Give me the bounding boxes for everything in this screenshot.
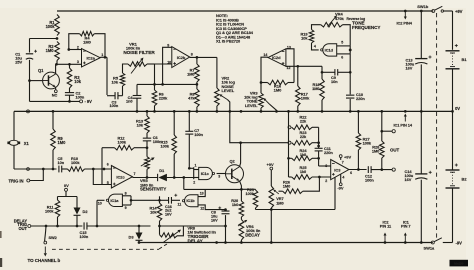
svg-text:14: 14 (263, 53, 267, 57)
svg-text:470k: 470k (335, 16, 345, 21)
svg-text:10n: 10n (58, 160, 65, 165)
potentiometer VR6 (238, 220, 261, 244)
svg-text:1M0: 1M0 (276, 201, 283, 206)
svg-text:4: 4 (342, 175, 344, 179)
svg-text:-9V: -9V (456, 241, 463, 246)
svg-text:IC1 PIN 14: IC1 PIN 14 (394, 123, 413, 128)
wire mixer column (317, 127, 330, 166)
svg-text:1M0: 1M0 (187, 72, 194, 77)
wire trigger-delay row (160, 225, 227, 236)
potentiometer VR4 (321, 15, 350, 46)
capacitor C14 (405, 111, 432, 243)
resistor R23 with terminal (288, 130, 319, 145)
svg-text:100n: 100n (110, 103, 119, 108)
op-amp IC3 (CA3080) (325, 160, 349, 183)
resistor R4 (80, 31, 95, 44)
credit box (450, 260, 469, 267)
wire IC2c out (133, 177, 158, 179)
terminal 0V mid (58, 183, 78, 200)
svg-text:16V: 16V (405, 177, 412, 182)
svg-text:100k: 100k (118, 140, 127, 145)
svg-text:100k: 100k (301, 96, 310, 101)
resistor R2 (46, 42, 60, 65)
svg-text:LEVEL: LEVEL (222, 88, 235, 93)
svg-text:100k: 100k (363, 141, 372, 146)
wire tone mute line (228, 110, 287, 144)
capacitor C4 (126, 84, 141, 112)
capacitor C9 (321, 69, 351, 84)
wire Q2 collector (240, 143, 241, 167)
battery B2 (446, 111, 468, 242)
wire IC1a inputs (122, 196, 160, 205)
wire 0V rail (14, 110, 453, 112)
svg-text:1n0: 1n0 (126, 99, 133, 104)
svg-text:220n: 220n (324, 150, 333, 155)
svg-text:1k0: 1k0 (300, 152, 306, 157)
wire Q1 emitter NC (52, 87, 58, 98)
transducer X1 (7, 140, 29, 146)
wire Q1 collector (55, 63, 58, 74)
note text block (216, 13, 254, 44)
resistor R11 (45, 200, 60, 227)
resistor R6 (152, 64, 172, 113)
svg-text:220n: 220n (356, 96, 365, 101)
potentiometer VR5 (141, 148, 155, 179)
svg-text:Me230: Me230 (454, 262, 464, 266)
wire IC2b output (190, 56, 217, 88)
wire osc column (349, 54, 352, 113)
wire D1 node (167, 176, 194, 189)
label IC1 PIN 14 arrow (394, 114, 413, 128)
capacitor C3 (107, 92, 123, 108)
gate IC1a (98, 191, 127, 210)
svg-text:10k: 10k (111, 80, 118, 85)
resistor R25 (289, 165, 331, 180)
diode D2 (74, 200, 89, 228)
wire IC1d inputs (337, 46, 352, 54)
capacitor C12 (365, 166, 392, 182)
resistor R8 (188, 84, 199, 112)
svg-text:6: 6 (350, 171, 352, 175)
svg-text:100k: 100k (71, 160, 80, 165)
terminal DELAY TRIG OUT (14, 218, 31, 231)
svg-text:22k: 22k (300, 134, 307, 139)
scan edge marks (0, 231, 2, 267)
svg-text:D2: D2 (83, 209, 89, 214)
svg-text:IC2 PIN4: IC2 PIN4 (397, 20, 413, 25)
svg-text:1k0: 1k0 (232, 202, 238, 207)
svg-text:100k: 100k (246, 191, 255, 196)
resistor R7 (187, 57, 199, 84)
wire C15 to IC1a (87, 201, 151, 227)
resistor R10 (68, 156, 85, 171)
IC3 pin7 +9V (339, 155, 351, 165)
svg-text:2: 2 (193, 180, 195, 184)
svg-text:OUT: OUT (390, 148, 399, 153)
svg-text:D1: D1 (159, 168, 165, 173)
switch SW1a (424, 238, 463, 251)
svg-text:22k: 22k (300, 119, 307, 124)
wire IC2d pin13 (286, 49, 294, 83)
wire R10 to IC2c (85, 168, 112, 171)
svg-text:FREQUENCY: FREQUENCY (352, 25, 380, 30)
svg-text:100n: 100n (194, 132, 203, 137)
wire pin2 feedback (303, 177, 320, 191)
resistor R24 (289, 148, 319, 161)
svg-text:100k: 100k (46, 24, 56, 29)
terminal +9V VR7 (267, 162, 274, 186)
svg-text:D3: D3 (128, 235, 134, 240)
svg-text:TO CHANNEL b: TO CHANNEL b (28, 258, 61, 263)
svg-text:1M0: 1M0 (58, 140, 67, 145)
svg-text:0V: 0V (455, 106, 460, 111)
capacitor C16 (160, 194, 182, 217)
svg-text:10: 10 (98, 201, 102, 205)
potentiometer VR2 (215, 88, 230, 113)
potentiometer VR1 (128, 58, 155, 74)
svg-text:SW1b: SW1b (417, 4, 429, 9)
wire left column X1 (14, 110, 30, 169)
svg-text:47k: 47k (188, 96, 195, 101)
IC3 pin4 -9V (337, 174, 344, 190)
label VR5 (140, 178, 166, 191)
wire trig node (14, 168, 57, 171)
resistor R27 (356, 110, 372, 169)
wire mixer ground column (287, 110, 290, 177)
svg-text:1k0: 1k0 (300, 169, 306, 174)
svg-text:IC3: IC3 (334, 167, 341, 172)
svg-text:10k: 10k (74, 79, 81, 84)
svg-text:10n: 10n (331, 79, 338, 84)
terminal -9V left (80, 99, 93, 104)
capacitor C7 (185, 110, 203, 170)
label VR1 (123, 41, 155, 55)
svg-text:1: 1 (101, 53, 103, 57)
capacitor C10 (346, 92, 365, 101)
svg-text:B2: B2 (462, 177, 468, 182)
svg-text:7: 7 (342, 160, 344, 164)
svg-text:16V: 16V (406, 66, 413, 71)
svg-text:SENSITIVITY: SENSITIVITY (140, 187, 166, 192)
resistor R26 (279, 179, 303, 193)
svg-text:16V: 16V (165, 213, 172, 217)
wire decay row (256, 177, 336, 210)
gate IC1c (193, 163, 220, 184)
resistor R9 (51, 110, 66, 169)
svg-text:NOISE FILTER: NOISE FILTER (123, 50, 155, 55)
label IC2 PIN4 arrow (397, 10, 413, 26)
wire IC1c out to Q2 (217, 173, 226, 175)
wire IC2d output (260, 57, 268, 93)
terminal OUT bottom (390, 148, 399, 172)
svg-text:5: 5 (341, 41, 343, 45)
svg-text:220k: 220k (159, 96, 168, 101)
label IC2 PIN 11 arrow (380, 219, 392, 244)
svg-text:DELAY: DELAY (188, 239, 204, 244)
transistor Q2 (226, 159, 244, 183)
capacitor C13 (406, 10, 432, 113)
terminal OUT top (392, 130, 395, 133)
svg-text:16V: 16V (211, 218, 218, 222)
op-amp IC2a (77, 46, 103, 67)
switch SW1b (417, 4, 452, 13)
svg-text:IC1b: IC1b (186, 198, 195, 203)
op-amp IC2b (167, 44, 193, 68)
svg-text:8: 8 (191, 52, 193, 56)
svg-text:10k: 10k (150, 210, 157, 215)
resistor R21 (241, 187, 257, 210)
wire -9V stub (30, 100, 80, 103)
capacitor C8 (211, 207, 230, 244)
svg-text:1M0: 1M0 (46, 48, 55, 53)
wire R12 feedback (101, 148, 103, 185)
wire Q1 base feed (28, 79, 42, 82)
resistor R13 (136, 110, 149, 133)
capacitor C11 (315, 145, 334, 155)
transistor Q1 (38, 68, 59, 89)
wire C5-R10 (62, 168, 68, 170)
svg-text:-9V: -9V (337, 185, 343, 190)
resistor R16 (261, 80, 294, 93)
wire C1 bottom (29, 60, 31, 102)
resistor R15 (161, 110, 177, 177)
resistor R5 (111, 64, 128, 96)
svg-text:4: 4 (314, 44, 316, 48)
capacitor C6 (143, 133, 162, 148)
op-amp IC2d (263, 46, 290, 70)
dashed gang link SW2-VR8 (52, 243, 169, 249)
junction dots misc (215, 110, 406, 244)
svg-text:1M0: 1M0 (83, 39, 91, 44)
svg-text:PIN 11: PIN 11 (380, 223, 392, 228)
terminal TRIG IN (9, 169, 44, 183)
svg-text:12: 12 (200, 207, 204, 211)
wire IC1c pin1 (189, 167, 198, 179)
svg-text:3: 3 (218, 174, 220, 178)
svg-text:100k: 100k (45, 209, 54, 214)
resistor R3 (67, 64, 82, 88)
svg-text:IC2d: IC2d (272, 55, 281, 60)
capacitor C15 (80, 222, 89, 238)
wire IC2a feedback loop (69, 34, 105, 58)
svg-text:13: 13 (200, 192, 204, 196)
svg-text:PIN 7: PIN 7 (401, 223, 410, 228)
svg-text:IC1c: IC1c (201, 171, 210, 176)
gate IC1d (314, 41, 343, 60)
svg-text:1M0: 1M0 (372, 149, 379, 154)
wire Q2 emitter (240, 181, 243, 191)
svg-text:3: 3 (77, 60, 79, 64)
svg-text:IC2a: IC2a (87, 56, 96, 61)
svg-text:10: 10 (167, 61, 171, 65)
wire -9V bottom rail (139, 242, 433, 244)
wire +9V corner (453, 9, 463, 50)
svg-text:TRIG IN: TRIG IN (9, 178, 24, 183)
svg-text:100k: 100k (161, 144, 170, 149)
potentiometer VR8 (160, 230, 182, 243)
svg-text:+9V: +9V (455, 9, 463, 14)
resistor R1 (46, 15, 60, 36)
svg-text:- 9V: - 9V (85, 99, 93, 104)
svg-text:IC1d: IC1d (325, 47, 334, 52)
diode D3 (128, 226, 142, 244)
svg-text:LEVEL: LEVEL (245, 103, 258, 108)
wire IC2a pin2 wire (67, 48, 81, 51)
svg-text:1: 1 (195, 163, 197, 167)
diode D1 (158, 168, 167, 181)
svg-text:SW2: SW2 (49, 235, 58, 240)
label IC1 PIN 7 arrow (401, 219, 410, 244)
svg-text:10k: 10k (137, 123, 144, 128)
svg-text:3: 3 (325, 164, 327, 168)
svg-text:6: 6 (341, 56, 343, 60)
wire R28 top to rail (380, 110, 392, 132)
svg-text:IC2b: IC2b (177, 55, 186, 60)
svg-text:1M0: 1M0 (283, 183, 290, 188)
svg-text:2: 2 (325, 179, 327, 183)
resistor R14 (150, 196, 162, 227)
svg-text:DECAY: DECAY (245, 232, 260, 237)
capacitor C2 (65, 88, 85, 101)
svg-text:+9V: +9V (267, 162, 274, 167)
svg-text:9: 9 (125, 206, 127, 210)
svg-text:100n: 100n (80, 234, 89, 239)
svg-text:Q1: Q1 (38, 68, 44, 73)
svg-text:8: 8 (125, 191, 127, 195)
svg-text:X1: X1 (24, 141, 30, 146)
switch SW2 (44, 226, 58, 244)
label VR2 (222, 76, 236, 93)
svg-text:11: 11 (178, 202, 182, 206)
potentiometer VR3 (259, 93, 277, 113)
svg-text:1M0: 1M0 (274, 88, 282, 93)
resistor R12 (102, 136, 148, 150)
wire +9V top rail (57, 10, 433, 12)
resistor R17 (296, 65, 311, 113)
svg-text:B1: B1 (462, 57, 468, 62)
label VR4 (335, 12, 380, 30)
arrow TO CHANNEL b (28, 247, 61, 263)
resistor R22 with terminal (288, 115, 319, 130)
svg-text:6: 6 (107, 163, 109, 167)
resistor R28 (372, 131, 384, 169)
resistor R19 (301, 25, 321, 50)
svg-text:IC2c: IC2c (116, 175, 125, 180)
gate IC1b (182, 192, 204, 211)
svg-text:100n: 100n (365, 178, 374, 183)
svg-text:X1 IS PB2720: X1 IS PB2720 (216, 39, 240, 44)
capacitor C1 (15, 50, 37, 65)
label VR3 (244, 90, 258, 107)
label VR8 (188, 225, 217, 243)
svg-text:100n: 100n (76, 94, 85, 99)
svg-text:OUT: OUT (19, 226, 28, 231)
wire IC2b pin9 feedback (137, 47, 198, 85)
svg-text:IC1a: IC1a (110, 198, 119, 203)
resistor R20 (231, 189, 244, 219)
battery B1 (446, 44, 468, 113)
svg-text:7: 7 (134, 172, 136, 176)
wire R1-R2 node to C1 (30, 37, 59, 52)
wire IC2d pin12 (286, 65, 322, 67)
potentiometer VR7 (269, 186, 284, 244)
svg-text:NC: NC (52, 93, 58, 98)
wire IC2a output (100, 56, 107, 95)
svg-text:Q2: Q2 (230, 159, 236, 164)
svg-text:+9V: +9V (344, 155, 351, 160)
svg-text:0V: 0V (64, 183, 69, 188)
wire IC1b inputs (184, 189, 242, 209)
wire IC2c pin5 (93, 169, 111, 185)
op-amp IC2c (107, 163, 136, 189)
svg-text:2: 2 (77, 46, 79, 50)
capacitor C5 (58, 156, 65, 172)
svg-text:10k: 10k (301, 36, 308, 41)
svg-text:SW1a: SW1a (424, 246, 436, 251)
svg-text:1M0: 1M0 (312, 86, 319, 91)
resistor R18 (312, 66, 324, 112)
svg-text:25V: 25V (15, 60, 22, 65)
wire IC3 out (349, 168, 367, 175)
wire delay out row (31, 225, 83, 228)
ganged switch dashed link (436, 13, 438, 238)
wire IC1a output (97, 199, 105, 202)
wire IC2a pin3 net (56, 63, 82, 66)
